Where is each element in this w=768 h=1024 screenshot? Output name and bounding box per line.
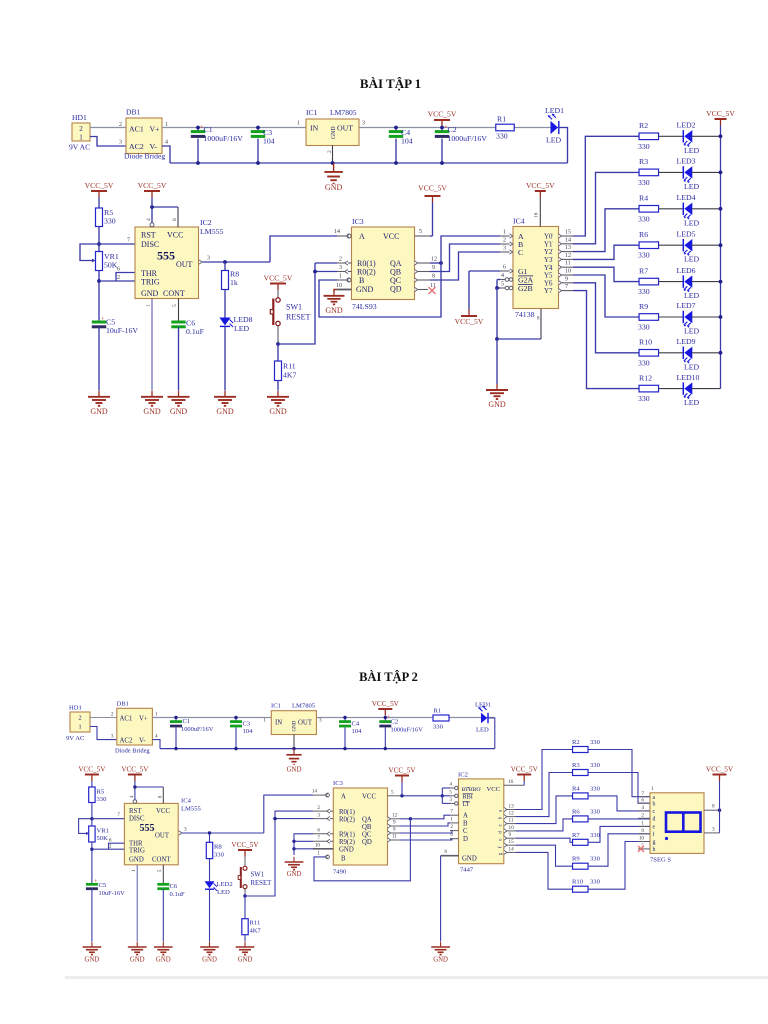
resistor R5 [96,208,103,227]
svg-text:10: 10 [565,269,571,275]
wire [244,935,246,942]
svg-text:330: 330 [590,762,601,769]
resistor R2 [573,747,589,753]
svg-text:13: 13 [565,245,571,251]
svg-text:DISC: DISC [129,816,145,823]
svg-text:LED: LED [684,182,700,191]
svg-text:VR1: VR1 [97,828,109,835]
svg-text:V-: V- [150,142,158,151]
pin A [337,235,347,237]
pin VCC16 [504,784,524,786]
svg-text:R9(2): R9(2) [339,839,355,846]
svg-text:GND: GND [216,407,234,416]
wire [277,381,279,391]
counter IC3 7490 [333,788,387,865]
svg-text:555: 555 [140,823,155,834]
svg-text:9: 9 [393,820,396,826]
svg-text:GND: GND [488,400,506,409]
svg-text:GND: GND [141,289,159,298]
svg-text:G2B: G2B [518,284,533,293]
wire Y3 net [573,245,639,259]
svg-text:THR: THR [129,841,143,848]
resistor R10 [573,886,589,892]
svg-text:IC2: IC2 [458,772,468,779]
svg-text:B: B [463,820,468,827]
svg-text:LED: LED [476,727,489,734]
resistor R7 [573,839,589,845]
svg-text:VCC_5V: VCC_5V [388,766,416,774]
svg-text:VCC_5V: VCC_5V [418,184,447,193]
svg-text:SW1: SW1 [251,872,265,879]
pin QC [388,831,391,835]
pin B2 [500,243,510,245]
wire seg net R6 [516,819,573,831]
wire [659,208,683,210]
svg-text:C1: C1 [183,718,191,725]
wire [588,796,650,811]
ground [236,942,255,955]
svg-text:LED9: LED9 [677,337,696,346]
svg-text:14: 14 [565,237,571,243]
svg-text:OUT: OUT [155,833,170,840]
wire [659,281,683,283]
svg-text:+: + [94,879,97,885]
svg-text:C5: C5 [99,882,107,889]
svg-text:10: 10 [639,836,645,842]
svg-text:R7: R7 [639,266,648,275]
svg-text:2: 2 [109,844,112,850]
svg-text:LED: LED [684,398,700,407]
svg-text:R9: R9 [639,302,648,311]
wire vcc to rail [430,235,433,237]
svg-text:AC2: AC2 [120,737,133,744]
pin QB [415,269,418,273]
pin Y0 [559,234,562,238]
svg-text:330: 330 [638,178,650,187]
svg-text:7490: 7490 [333,869,347,876]
svg-text:VCC_5V: VCC_5V [231,841,259,849]
bridge DB1 [117,708,153,745]
LED LED7 [684,311,692,323]
pin seg 14 [504,850,507,854]
capacitor C6 [171,321,185,324]
svg-text:R5: R5 [97,789,105,796]
svg-text:2: 2 [641,813,644,819]
svg-text:QD: QD [362,839,372,846]
svg-text:8: 8 [172,218,178,221]
wire [659,388,683,390]
svg-text:12: 12 [431,257,437,263]
wire [90,727,117,740]
power VCC_5V [91,191,107,198]
decoder IC2 7447 [459,779,504,864]
svg-text:14: 14 [334,229,340,235]
wire [90,717,117,719]
svg-text:R2: R2 [639,121,648,130]
svg-text:d: d [653,817,656,823]
svg-text:VCC_5V: VCC_5V [78,765,106,773]
svg-text:555: 555 [157,249,175,263]
ground [324,290,345,304]
pin G2A [500,279,505,281]
wire seg net R10 [516,852,573,889]
resistor R2 [639,133,659,140]
svg-text:330: 330 [104,217,116,226]
wire vcc16 [539,198,541,227]
connector HD1 [72,123,90,141]
wire [152,740,160,749]
svg-text:OUT: OUT [298,720,313,727]
decoder IC4 74138 [513,227,559,309]
svg-text:1: 1 [263,718,266,724]
wire [270,236,337,262]
svg-text:5: 5 [501,282,504,288]
LED LED2 [205,881,215,888]
svg-text:A: A [359,232,365,241]
svg-text:BÀI TẬP 1: BÀI TẬP 1 [360,76,421,91]
capacitor C6 [157,883,169,886]
svg-text:QD: QD [390,285,402,294]
ground [168,391,190,406]
svg-text:LT: LT [463,801,470,808]
svg-text:LED: LED [684,291,700,300]
svg-text:RST: RST [141,231,156,240]
svg-text:1: 1 [317,851,320,857]
wire [588,842,650,890]
svg-text:D: D [463,836,468,843]
wire [659,244,683,246]
svg-text:5: 5 [391,789,394,795]
ground [83,942,102,955]
wire enable ties [442,787,450,789]
svg-text:6: 6 [109,838,112,844]
svg-text:R6: R6 [572,808,580,815]
svg-text:VCC_5V: VCC_5V [428,110,457,119]
svg-text:1000uF/16V: 1000uF/16V [181,726,214,733]
svg-text:C: C [518,248,523,257]
svg-text:330: 330 [638,287,650,296]
svg-text:3: 3 [111,734,114,740]
svg-text:10: 10 [315,843,321,849]
wire [98,198,100,209]
svg-text:R4: R4 [639,194,648,203]
svg-text:GND: GND [143,407,161,416]
wire [588,818,650,820]
wire 555 gnd [151,299,153,391]
svg-text:2: 2 [111,712,114,718]
svg-text:Y6: Y6 [544,280,553,287]
svg-text:GND: GND [90,407,108,416]
regulator IC1 LM7805 [306,119,359,146]
svg-text:8: 8 [432,274,435,280]
svg-text:3: 3 [319,718,322,724]
resistor R8 [224,262,226,271]
power VCC_5V [434,120,450,127]
ground [324,163,342,183]
wire r0 net [315,262,337,264]
svg-text:330: 330 [638,323,650,332]
resistor R3 [639,169,659,176]
svg-text:LED3: LED3 [677,157,696,166]
svg-text:9: 9 [641,828,644,834]
pin R0(2) [337,271,352,273]
timer IC2 LM555 [135,227,199,299]
wire qa to b loop [314,819,410,881]
wire rst vcc [150,223,154,227]
svg-text:16: 16 [508,779,514,785]
svg-text:IN: IN [310,123,319,132]
wire ic2 gnd [440,856,442,942]
svg-text:B: B [341,855,346,862]
svg-text:GND: GND [339,846,354,853]
svg-text:1: 1 [297,121,300,127]
svg-text:GND: GND [293,720,298,731]
svg-text:4: 4 [501,273,504,279]
svg-text:3: 3 [339,265,342,271]
svg-text:LM7805: LM7805 [292,703,316,710]
pin seg 11 [504,822,507,826]
svg-text:QC: QC [362,831,372,838]
svg-text:GND: GND [156,957,171,964]
svg-text:R2: R2 [572,739,580,746]
wire seg net R9 [516,845,573,866]
pin R9(2) [313,840,333,842]
svg-text:6: 6 [117,267,120,273]
pin B [324,856,327,858]
wire [90,127,126,129]
svg-text:R4: R4 [572,785,580,792]
svg-text:4K7: 4K7 [250,928,262,935]
svg-text:R1: R1 [497,115,506,124]
LED LED4 [684,203,692,215]
svg-text:1: 1 [146,304,152,307]
power VCC_5V [378,709,392,716]
svg-text:GND: GND [433,957,448,964]
svg-text:6: 6 [317,828,320,834]
resistor R1 [433,715,449,721]
svg-text:OUT: OUT [337,123,353,132]
svg-text:330: 330 [496,131,508,140]
wire r9 gnd net [294,834,313,855]
svg-text:3: 3 [119,140,122,146]
svg-text:1: 1 [450,816,453,822]
wire [659,316,683,318]
pin R9(1) [313,833,333,835]
svg-text:11: 11 [392,834,397,840]
svg-text:R9(1): R9(1) [339,831,355,838]
power VCC_5V [128,775,142,782]
svg-text:AC1: AC1 [129,124,144,133]
wire [659,135,683,137]
svg-text:GND: GND [356,285,374,294]
svg-text:2: 2 [78,715,81,722]
switch SW1 RESET [277,290,279,298]
pin GND8 [441,855,459,857]
connector HD1 [70,712,90,732]
svg-text:8: 8 [393,827,396,833]
svg-text:Y0: Y0 [544,234,553,241]
svg-text:R10: R10 [639,338,652,347]
LED LED8 [219,318,230,326]
wire bottom rail [160,748,495,750]
svg-text:R6: R6 [639,230,648,239]
wire [98,271,100,322]
power VCC_5V [517,775,531,782]
resistor R4 [639,206,659,213]
svg-text:RBI: RBI [463,794,473,801]
pin QA [388,817,391,821]
wire cont [162,865,164,884]
wire top rail [162,127,568,129]
svg-text:R10: R10 [572,879,584,886]
svg-text:SW1: SW1 [286,302,302,311]
svg-text:9: 9 [565,276,568,282]
svg-text:LED6: LED6 [677,266,696,275]
wire [91,803,93,827]
svg-text:50K: 50K [97,835,109,842]
svg-text:3: 3 [449,797,452,803]
svg-text:VCC_5V: VCC_5V [372,700,400,708]
wire [559,128,568,164]
wire disc [80,244,135,261]
wire g2 gnd [496,280,498,289]
wire Y2 net [573,209,639,252]
wire [98,227,100,253]
svg-text:74LS93: 74LS93 [352,302,377,311]
ground [200,942,219,955]
svg-text:R3: R3 [572,762,580,769]
svg-text:DB1: DB1 [117,701,129,708]
pin G2B [500,287,505,289]
svg-text:V-: V- [139,737,146,744]
pin 8 common [704,809,720,811]
svg-text:DB1: DB1 [126,108,141,117]
timer IC4 LM555 [124,803,178,864]
svg-text:HD1: HD1 [69,705,82,712]
svg-text:10uF-16V: 10uF-16V [99,890,126,897]
svg-text:330: 330 [638,214,650,223]
svg-text:VCC_5V: VCC_5V [455,317,484,326]
svg-text:R0(2): R0(2) [339,816,355,823]
wire seg net R4 [516,796,573,824]
svg-text:2: 2 [503,238,506,244]
svg-text:1: 1 [78,724,81,731]
7seg digit [666,813,701,832]
LED LED1 [481,713,487,723]
svg-text:9V AC: 9V AC [66,735,85,742]
svg-text:VCC: VCC [487,786,501,793]
wire [209,890,211,942]
pin B1 [450,822,459,824]
svg-text:3: 3 [207,256,210,262]
svg-text:330: 330 [590,739,601,746]
capacitor C2 [441,128,443,132]
ground [214,391,236,406]
wire rst vcc [133,800,137,804]
no-connect h [638,846,644,852]
svg-text:Y2: Y2 [544,249,553,256]
svg-text:QB: QB [362,824,372,831]
svg-text:12: 12 [392,812,398,818]
pin A7 [450,814,459,816]
pin QD [388,838,391,842]
resistor R11 [244,896,246,919]
pin Y5 [559,273,562,277]
pin B [337,279,347,281]
svg-text:LED1: LED1 [545,106,564,115]
capacitor C2 [384,718,386,722]
svg-text:9: 9 [432,265,435,271]
wire sw to r0 [243,894,246,897]
wire [224,327,226,391]
svg-text:1: 1 [641,821,644,827]
wire seg net R7 [516,838,573,842]
svg-text:4: 4 [155,734,158,740]
svg-text:BÀI TẬP 2: BÀI TẬP 2 [359,670,418,684]
wire [91,842,93,884]
counter IC3 74LS93 [352,227,415,300]
pin QD [415,287,418,291]
svg-text:10: 10 [509,825,515,831]
svg-text:OUT: OUT [176,260,193,269]
svg-text:LED: LED [684,146,700,155]
wire ic3 gnd [334,290,337,293]
wire bottom rail [170,162,568,164]
svg-text:RST: RST [129,808,142,815]
svg-text:12: 12 [565,253,571,259]
wire out [199,260,202,264]
svg-text:4: 4 [165,140,168,146]
display 7SEG S [650,793,704,854]
svg-text:R0(1): R0(1) [339,809,355,816]
wire [588,834,650,866]
svg-text:330: 330 [590,856,601,863]
pin R0(1) [337,262,352,264]
svg-text:GND: GND [287,767,302,774]
svg-text:330: 330 [590,808,601,815]
wire [277,326,279,344]
wire Y0 net [573,136,639,236]
power VCC_5V down [461,310,477,317]
svg-text:V+: V+ [150,124,161,133]
svg-text:1: 1 [155,712,158,718]
capacitor C1 [197,128,199,132]
wire [588,773,650,804]
pin seg 13 [504,807,507,811]
svg-text:C2: C2 [448,125,457,134]
svg-text:R9: R9 [572,856,580,863]
wire seg net R3 [516,773,573,817]
pin Y3 [559,257,562,261]
svg-text:7SEG S: 7SEG S [650,857,671,864]
svg-text:f: f [653,831,655,838]
svg-text:IC1: IC1 [306,108,318,117]
svg-text:11: 11 [565,261,571,267]
pin GND10 [313,848,333,850]
wire [264,795,313,833]
svg-text:330: 330 [590,879,601,886]
svg-text:7: 7 [317,835,320,841]
svg-text:AC1: AC1 [120,715,133,722]
svg-text:HD1: HD1 [72,113,87,122]
svg-text:7: 7 [117,812,120,818]
svg-text:8: 8 [444,849,447,855]
page separator [65,976,768,979]
svg-text:104: 104 [401,137,413,146]
svg-text:+: + [101,316,105,323]
svg-text:4: 4 [641,805,644,811]
resistor R9 [573,863,589,869]
